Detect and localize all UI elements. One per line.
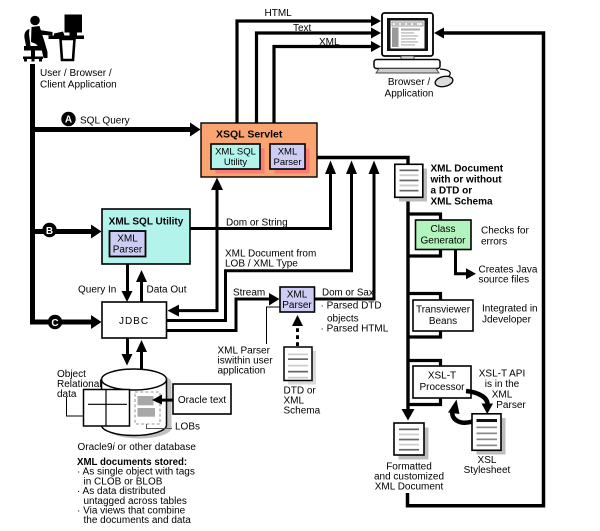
svg-text:Parser: Parser [113, 245, 143, 256]
svg-text:Oracle9i or other database: Oracle9i or other database [78, 442, 197, 453]
label Object Relational data [57, 369, 101, 400]
svg-text:a DTD or: a DTD or [431, 186, 473, 197]
svg-text:Parser: Parser [274, 157, 302, 168]
wire servlet-JDBC bidirectional elbow [168, 178, 224, 317]
svg-text:XML: XML [278, 147, 298, 158]
wire Text from servlet to browser [257, 28, 382, 124]
connector to Object Relational data label [67, 397, 84, 416]
box XSL-T Processor [413, 366, 471, 398]
label Dom or String [226, 218, 288, 229]
svg-text:· Parsed DTD: · Parsed DTD [321, 301, 382, 312]
svg-text:the documents and data: the documents and data [84, 515, 192, 526]
label Query In [78, 285, 116, 296]
svg-text:with or without: with or without [430, 175, 503, 186]
document icon Formatted XML [394, 423, 429, 460]
svg-text:XML: XML [319, 37, 340, 48]
svg-text:Client Application: Client Application [40, 80, 117, 91]
cycle arrow XSL-T to stylesheet [466, 391, 493, 414]
svg-text:Application: Application [385, 89, 434, 100]
arrow database to JDBC [136, 340, 147, 370]
svg-text:Browser /: Browser / [388, 77, 430, 88]
label XSL-T API is in the XML Parser [479, 369, 527, 412]
box Oracle text [173, 384, 231, 414]
label XML Document with or without a DTD or XML Schema [430, 164, 504, 208]
box XSQL Servlet [201, 123, 317, 177]
label LOBs [175, 422, 200, 433]
svg-text:is in the: is in the [485, 379, 520, 390]
svg-text:JDBC: JDBC [119, 316, 149, 327]
label Creates Java source files [479, 265, 538, 286]
label XML Parser is within user application [218, 346, 274, 377]
svg-text:XML Schema: XML Schema [431, 197, 493, 208]
svg-text:XML Document: XML Document [431, 164, 504, 175]
wire HTML from servlet to browser [237, 16, 381, 124]
label User / Browser / Client Application [40, 68, 117, 91]
label Integrated in Jdeveloper [482, 304, 538, 326]
svg-text:Dom or String: Dom or String [226, 218, 288, 229]
svg-text:User / Browser /: User / Browser / [40, 68, 112, 79]
svg-text:XSL-T: XSL-T [428, 371, 456, 382]
svg-text:Integrated in: Integrated in [482, 304, 538, 315]
svg-text:XML Document: XML Document [375, 482, 444, 493]
svg-text:Jdeveloper: Jdeveloper [482, 315, 532, 326]
svg-text:Generator: Generator [420, 236, 466, 247]
svg-text:XSQL Servlet: XSQL Servlet [216, 129, 283, 141]
svg-text:LOBs: LOBs [175, 422, 200, 433]
label XML Document from LOB / XML Type [225, 249, 316, 270]
dashed arrow DTD schema to parser [292, 315, 303, 346]
svg-text:Oracle text: Oracle text [178, 395, 227, 406]
svg-text:Dom or Sax: Dom or Sax [322, 288, 374, 299]
cycle arrow stylesheet to XSL-T [448, 400, 473, 423]
svg-text:HTML: HTML [265, 8, 293, 19]
text XML documents stored list [77, 457, 195, 526]
svg-text:XML: XML [492, 390, 513, 401]
svg-text:XML: XML [287, 290, 308, 301]
svg-text:XML SQL Utility: XML SQL Utility [109, 217, 184, 228]
label XSL Stylesheet [464, 455, 511, 476]
svg-text:Utility: Utility [224, 157, 247, 168]
node C marker [48, 315, 62, 329]
document icon DTD or XML Schema [284, 347, 316, 385]
wire branch A (SQL Query) [30, 123, 201, 137]
arrow Oracle text to LOBs [152, 395, 173, 405]
box XML Parser inside XML SQL Utility [110, 231, 146, 257]
label Text [293, 23, 312, 34]
document icon XSL Stylesheet [472, 414, 506, 455]
wire Dom or String up-arrow 1 [190, 161, 336, 229]
svg-text:Parser: Parser [496, 400, 526, 411]
svg-text:data: data [57, 389, 77, 400]
svg-text:application: application [218, 366, 266, 377]
node A marker [61, 112, 75, 126]
label Formatted and customized XML Document [374, 462, 444, 493]
wire branch B [30, 225, 102, 239]
label DTD or XML Schema [284, 386, 321, 417]
wire Creates Java source files [456, 250, 477, 280]
box Class Generator [416, 220, 472, 250]
node B marker [42, 223, 56, 237]
svg-text:Data Out: Data Out [147, 285, 187, 296]
svg-text:Class: Class [430, 224, 455, 235]
browser computer icon [374, 13, 454, 88]
database cylinder [102, 369, 167, 436]
connector to LOBs label [147, 424, 173, 429]
svg-text:Text: Text [293, 23, 312, 34]
label Stream [233, 288, 265, 299]
wire XML Document from LOB up-arrow 2 [167, 161, 358, 321]
svg-text:Processor: Processor [419, 382, 465, 393]
svg-text:Beans: Beans [429, 316, 457, 327]
label Checks for errors [481, 226, 529, 248]
box XML SQL Utility inside servlet [211, 144, 265, 174]
wire servlet parser output to document trunk [308, 158, 415, 421]
wire branch C [30, 315, 102, 329]
svg-text:Checks for: Checks for [481, 226, 529, 237]
box XML SQL Utility outer [102, 209, 190, 264]
svg-text:XSL-T API: XSL-T API [479, 369, 526, 380]
wire left trunk from user [30, 64, 35, 325]
label Oracle9i or other database [78, 442, 197, 453]
svg-text:Stream: Stream [233, 288, 265, 299]
database cylinder shadow [107, 372, 172, 438]
svg-text:A: A [65, 115, 72, 126]
box JDBC [102, 302, 167, 338]
label Browser / Application [385, 77, 434, 100]
label HTML [265, 8, 293, 19]
wire XML from servlet to browser [274, 41, 381, 123]
svg-text:Transviewer: Transviewer [416, 305, 471, 316]
label Dom or Sax [322, 288, 374, 299]
svg-text:errors: errors [481, 237, 507, 248]
wire right return loop to browser [408, 28, 544, 506]
staple wire XSL-T [408, 361, 441, 405]
svg-text:C: C [51, 318, 58, 329]
box XML Parser mid [280, 287, 315, 312]
svg-text:LOB / XML Type: LOB / XML Type [225, 259, 298, 270]
document icon XML Document top right [395, 164, 427, 201]
svg-text:source files: source files [479, 275, 530, 286]
svg-text:Stylesheet: Stylesheet [464, 465, 511, 476]
arrow Data Out [136, 270, 147, 302]
staple wire Class Generator [408, 214, 441, 256]
svg-text:XML SQL: XML SQL [215, 147, 256, 158]
user workstation icon [23, 15, 84, 62]
box Transviewer Beans [413, 300, 473, 331]
list Parsed DTD objects / Parsed HTML [321, 301, 389, 335]
arrow Query In [122, 264, 133, 302]
svg-text:Query In: Query In [78, 285, 116, 296]
wire Dom or Sax up-arrow 3 [315, 161, 380, 300]
label SQL Query [80, 116, 130, 127]
label XML [319, 37, 340, 48]
table icon object relational [84, 390, 130, 427]
svg-text:SQL Query: SQL Query [80, 116, 130, 127]
svg-text:XML: XML [117, 234, 138, 245]
connector label line for mid parser [267, 307, 281, 344]
svg-text:Parser: Parser [282, 300, 312, 311]
box XML Parser inside servlet [270, 144, 310, 174]
label Data Out [147, 285, 187, 296]
LOBs dashed box [135, 392, 160, 424]
svg-text:B: B [46, 226, 53, 237]
arrow JDBC to database [122, 338, 133, 366]
staple wire Transviewer [408, 294, 441, 338]
svg-text:· Parsed HTML: · Parsed HTML [321, 324, 389, 335]
wire Stream from JDBC to parser [167, 293, 280, 331]
svg-text:Schema: Schema [284, 406, 321, 417]
